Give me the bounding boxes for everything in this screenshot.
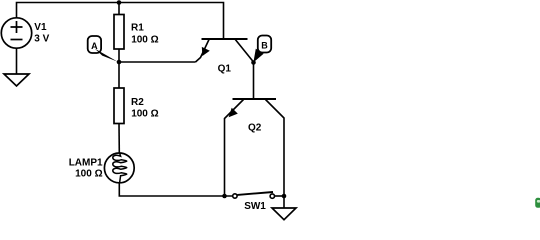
ground (bottom right) (272, 208, 296, 220)
svg-text:100 Ω: 100 Ω (75, 169, 102, 180)
wire R2 to LAMP1 (118, 124, 120, 154)
wire V1 to ground (16, 48, 18, 74)
svg-text:V1: V1 (34, 22, 47, 33)
svg-text:SW1: SW1 (244, 201, 266, 212)
svg-text:Q2: Q2 (248, 123, 262, 134)
lamp LAMP1 (104, 153, 134, 183)
ground (V1) (4, 74, 29, 86)
svg-text:100 Ω: 100 Ω (131, 108, 158, 119)
wire top rail to R1 (118, 3, 120, 15)
svg-text:LAMP1: LAMP1 (69, 157, 103, 168)
wire R1 to node A (118, 49, 120, 62)
resistor R2 (114, 88, 124, 124)
wire to ground (bottom right) (283, 196, 285, 208)
svg-text:Q1: Q1 (218, 64, 232, 75)
node A junction (117, 60, 122, 65)
transistor Q2 (225, 99, 285, 196)
green watermark glyph (cut off at right edge) (535, 198, 540, 208)
wire switch to ground node (275, 195, 284, 197)
wire node A to R2 (118, 62, 120, 88)
svg-text:3 V: 3 V (34, 33, 49, 44)
node flag B (253, 36, 271, 63)
svg-text:A: A (91, 41, 98, 51)
node flag A (88, 36, 118, 62)
node B junction (251, 60, 256, 65)
switch SW1 (233, 192, 275, 198)
wire node A to Q1 emitter (119, 61, 196, 63)
node junction top rail / R1 (117, 0, 122, 5)
svg-text:B: B (261, 41, 268, 51)
resistor R1 (114, 15, 124, 50)
wire LAMP1 to bottom rail and switch (119, 183, 232, 196)
wire top rail from V1 to Q1 base (17, 3, 224, 40)
voltage source V1 (1, 18, 31, 48)
svg-text:100 Ω: 100 Ω (131, 35, 158, 46)
svg-text:R2: R2 (131, 97, 144, 108)
wire node B to Q2 base (253, 63, 255, 100)
svg-text:R1: R1 (131, 23, 144, 34)
junction Q2 emitter / bottom rail (222, 194, 227, 199)
transistor Q1 (196, 39, 254, 62)
junction Q2 collector / switch / ground (282, 194, 287, 199)
